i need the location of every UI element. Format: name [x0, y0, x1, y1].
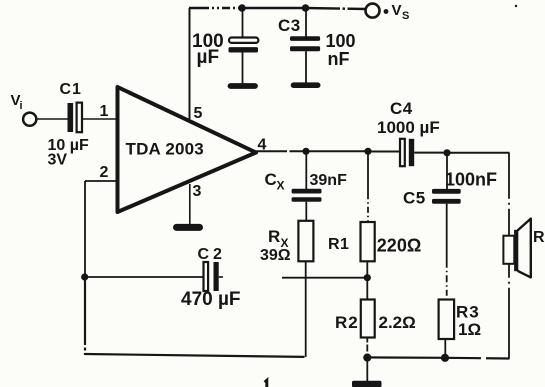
terminal Vi input [11, 92, 37, 126]
svg-text:R2: R2 [335, 313, 359, 332]
svg-text:1000 µF: 1000 µF [377, 118, 440, 137]
svg-text:100nF: 100nF [445, 170, 497, 190]
wire C2 node to R1-R2 junction (scan gap) [282, 277, 367, 279]
svg-text:X: X [277, 179, 285, 193]
reference label Rx [268, 227, 289, 250]
caption figure mark (partial digit 1) [265, 380, 267, 387]
reference label Cx [265, 170, 285, 193]
capacitor 100uF (supply electrolytic) [229, 38, 259, 53]
svg-text:C5: C5 [403, 189, 426, 208]
svg-text:2: 2 [100, 164, 109, 181]
svg-text:C1: C1 [60, 81, 82, 98]
svg-text:V: V [392, 2, 402, 19]
value label 100 nF [326, 31, 356, 69]
node ground rail junction [363, 354, 371, 362]
wire R1 to R2 [366, 261, 368, 299]
wire C5 to R3 (dash-dot lower part) [446, 204, 448, 300]
wire bottom-left rail [85, 354, 305, 357]
node supply junction at C3 [302, 4, 310, 12]
resistor Rx [298, 221, 313, 261]
svg-text:C3: C3 [278, 16, 301, 35]
wire C5 column vertical [446, 153, 448, 189]
resistor R2 [361, 300, 375, 338]
svg-text:µF: µF [197, 47, 220, 68]
svg-text:220Ω: 220Ω [377, 236, 421, 256]
svg-text:5: 5 [194, 105, 203, 122]
op-amp U1 TDA2003 [118, 87, 257, 212]
svg-text:i: i [20, 100, 23, 112]
node R3 bottom junction [441, 354, 449, 362]
wire Cx node to R1 node [306, 150, 368, 152]
wire feedback left vertical [84, 181, 86, 277]
capacitor C4 (output electrolytic) [400, 139, 414, 166]
svg-text:1: 1 [100, 103, 109, 120]
wire R2 to ground rail (scan dash) [366, 338, 368, 358]
svg-text:R: R [533, 229, 545, 246]
wire Cx to Rx [305, 202, 307, 221]
capacitor C5 [432, 189, 461, 204]
ground below R2 [352, 381, 382, 387]
svg-text:39Ω: 39Ω [260, 247, 291, 264]
svg-text:R3: R3 [456, 303, 480, 322]
capacitor C3 [290, 36, 320, 51]
svg-text:R: R [268, 227, 280, 246]
resistor R1 [361, 222, 375, 261]
wire C3 to ground [305, 51, 307, 82]
wire bottom rail R2 to R3 [367, 356, 445, 359]
wire from rail down to C3 [305, 8, 307, 37]
wire input terminal to C1 [37, 118, 68, 120]
wire stub right of C2 [219, 276, 223, 278]
wire op-amp output to Cx node [254, 150, 306, 152]
wire from rail down to 100uF capacitor [242, 8, 244, 37]
wire junction to C2 [85, 276, 203, 278]
wire R1 node to C4 [368, 151, 399, 153]
svg-text:470 µF: 470 µF [181, 289, 241, 310]
wire C4 to C5 node [414, 152, 447, 154]
wire pin 5 vertical from supply rail to op-amp [189, 8, 191, 119]
value label 10uF 3V [48, 137, 89, 169]
scan speck [515, 5, 517, 7]
wire junction to ground symbol [366, 358, 368, 381]
wire 100uF to ground [242, 53, 244, 84]
wire feedback column lower vertical [84, 277, 86, 355]
resistor R3 [439, 300, 455, 340]
wire C5 node to speaker corner [447, 152, 510, 154]
terminal +Vs [366, 2, 410, 22]
svg-text:39nF: 39nF [310, 172, 348, 189]
svg-text:C4: C4 [390, 99, 413, 118]
value label 100 uF [192, 31, 224, 68]
speaker RL [503, 219, 545, 278]
node output at R1 [364, 148, 371, 155]
capacitor C1 (input electrolytic) [68, 103, 83, 133]
wire Cx column vertical [305, 151, 307, 189]
capacitor C2 [204, 262, 219, 291]
wire pin 2 to left feedback column [85, 180, 116, 182]
svg-text:1Ω: 1Ω [458, 320, 481, 339]
wire Rx bottom down to bottom-left rail [305, 261, 307, 357]
wire R1 column vertical (dash-dot) [367, 151, 369, 222]
svg-text:100: 100 [326, 31, 356, 51]
wire top supply rail mid segment [242, 7, 305, 9]
wire top supply rail to Vs terminal [305, 8, 366, 9]
svg-text:3V: 3V [48, 152, 68, 169]
ground below C3 [294, 82, 318, 88]
svg-text:TDA 2003: TDA 2003 [126, 140, 204, 159]
svg-text:nF: nF [328, 49, 350, 69]
node supply junction at 100uF [238, 4, 246, 12]
wire C1 to pin 1 [83, 118, 116, 120]
node feedback junction R1-R2 [364, 274, 371, 281]
wire top supply rail left dash-dot segment [189, 7, 242, 9]
wire speaker column upper vertical (dash-dot) [508, 153, 510, 236]
svg-text:C: C [265, 170, 277, 189]
svg-text:S: S [402, 10, 409, 22]
ground below pin 3 [177, 224, 200, 231]
svg-text:3: 3 [193, 183, 202, 200]
node feedback left junction [81, 273, 88, 280]
wire pin 3 to ground [189, 184, 191, 224]
wire bottom rail R3 to speaker corner (scan gap) [445, 357, 510, 360]
capacitor Cx [292, 189, 322, 202]
node output at Cx [302, 148, 309, 155]
svg-text:R1: R1 [328, 236, 349, 253]
node C5 top junction [443, 149, 450, 156]
ground below 100uF [231, 83, 256, 89]
wire speaker column lower vertical (dash-dot) [508, 264, 510, 359]
wire R3 to bottom rail [444, 339, 446, 358]
svg-text:C2: C2 [198, 246, 226, 263]
svg-text:2.2Ω: 2.2Ω [379, 313, 416, 332]
